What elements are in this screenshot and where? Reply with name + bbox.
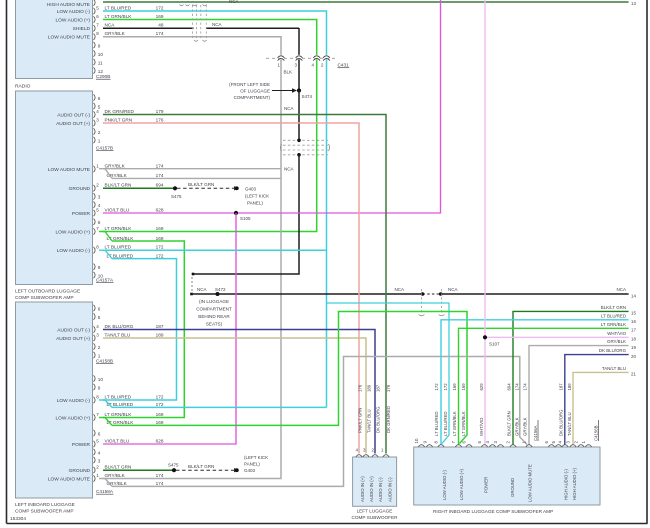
svg-text:179: 179 [386,384,391,392]
C4157A pin 2 GROUND BLK/LT GRN 694 [94,185,96,191]
connector C431 arcs on LT GRN/BLK wire [315,55,318,60]
svg-text:POWER: POWER [72,442,91,448]
svg-text:15: 15 [631,311,636,316]
right amp C4156A pin brackets [418,445,424,447]
junction dot at connector exit on NCA wire [297,153,301,157]
svg-text:179: 179 [156,109,164,114]
svg-text:OF LUGGAGE: OF LUGGAGE [240,89,270,94]
svg-text:GRY/BLK: GRY/BLK [607,339,626,344]
svg-text:RADIO: RADIO [15,84,31,90]
svg-text:TAN/LT BLU: TAN/LT BLU [567,412,572,436]
wire GRY/BLK 174: radio pin 8 right then down at x=281 to C4158A pin 1 [103,37,281,479]
left inboard luggage comp subwoofer amp box (C4158B/C4158A) [16,302,93,498]
svg-text:LT BLU/RED: LT BLU/RED [443,412,448,436]
C4157B pin 4 AUDIO OUT (-) DK GRN/RED 179 [94,111,96,117]
svg-text:C4156B: C4156B [594,425,599,441]
svg-text:10: 10 [414,438,419,443]
svg-text:LT BLU/RED: LT BLU/RED [105,5,132,10]
arrow pointing to splice S474 [272,90,292,92]
svg-text:169: 169 [156,14,164,19]
svg-text:COMP SUBWOOFER AMP: COMP SUBWOOFER AMP [15,509,74,515]
svg-text:628: 628 [156,207,164,212]
svg-text:169: 169 [461,383,466,391]
wire NCA: connector down then left to shield termination [193,155,299,274]
wire LT BLU/RED 172: radio pin 5 right then down at x=326.5 [103,11,327,407]
connector C431 dashed body [266,57,338,59]
shield termination square [192,273,195,276]
svg-text:COMP SUBWOOFER AMP: COMP SUBWOOFER AMP [15,295,74,301]
svg-text:BLK/LT GRN: BLK/LT GRN [188,464,214,469]
svg-text:C290B: C290B [96,74,110,79]
svg-text:BLK: BLK [284,70,293,75]
svg-text:5: 5 [98,315,101,320]
svg-text:169: 169 [156,226,164,231]
svg-text:176: 176 [156,117,164,122]
svg-text:13: 13 [631,1,636,6]
svg-text:19: 19 [631,345,636,350]
radio C290B pin 9 (empty) [94,42,96,48]
svg-text:NCA: NCA [394,287,404,292]
svg-text:BLK/LT GRN: BLK/LT GRN [105,464,132,469]
wire WHT/VIO 629: from top at x=485 through splice S107 to right edge pin 18 and down to right amp pin 5 [484,0,486,445]
svg-text:C431: C431 [338,63,350,68]
svg-text:BLK/LT GRN: BLK/LT GRN [601,305,626,310]
svg-text:694: 694 [507,383,512,391]
splice S475 dot (lower) [172,468,176,472]
svg-text:172: 172 [156,394,164,399]
svg-text:172: 172 [156,245,164,250]
svg-text:LOW AUDIO (+): LOW AUDIO (+) [459,469,464,500]
svg-text:POWER: POWER [72,211,91,217]
svg-text:LT GRN/BLK: LT GRN/BLK [461,411,466,436]
svg-text:AUDIO IN (+): AUDIO IN (+) [369,476,374,502]
svg-text:VIO/LT BLU: VIO/LT BLU [105,207,130,212]
svg-text:GRY/BLK: GRY/BLK [105,163,126,168]
wire DK BLU/ORG 187: right edge pin 20 left then down to right amp C4156B pin 4 [565,355,629,445]
svg-text:NCA: NCA [284,106,294,111]
wire BLK/LT GRN 694: right edge pin 15 left then down to right amp pin 2 [513,311,629,444]
radio C290B pin 12 (empty) [94,67,96,73]
wire GRY/BLK 174: right edge pin 19 left then down to right amp pin 1 [529,346,629,445]
svg-text:18: 18 [631,337,636,342]
svg-text:G403: G403 [244,468,256,473]
svg-text:187: 187 [559,383,564,391]
C4157A pin 6 (empty) [94,219,96,225]
inline connector dots on NCA wire near right [421,292,425,296]
svg-text:LT BLU/RED: LT BLU/RED [105,394,132,399]
svg-text:LOW AUDIO (-): LOW AUDIO (-) [57,9,91,15]
wire LT GRN/BLK 169 jog: C4157A pin 7 down to x=184.3 then to C4158A pin 7 [99,232,112,242]
NCA wire termination square at S472 row [190,293,193,296]
svg-text:2: 2 [98,130,101,135]
svg-text:9: 9 [98,385,101,390]
svg-text:NCA: NCA [616,287,626,292]
svg-text:(LEFT KICK: (LEFT KICK [244,455,268,460]
wire LT BLU/RED 172 branch: vertical tee right to right amp pin 8 [327,303,450,444]
svg-text:LEFT OUTBOARD LUGGAGE: LEFT OUTBOARD LUGGAGE [15,289,80,295]
svg-text:2: 2 [98,345,101,350]
wire LT BLU/RED 172 jog: C4158A pin 8 second wire up into cyan vertical [99,400,112,407]
svg-text:RIGHT INBOARD LUGGAGE COMP SUB: RIGHT INBOARD LUGGAGE COMP SUBWOOFER AMP [433,509,553,514]
svg-text:AUDIO OUT (+): AUDIO OUT (+) [56,121,90,127]
C4158A pin 1 LOW AUDIO MUTE GRY/BLK 174 [94,475,96,481]
C4158B pin 3 AUDIO OUT (+) TAN/LT BLU 189 [94,335,96,341]
svg-text:LOW AUDIO MUTE: LOW AUDIO MUTE [48,476,90,482]
svg-text:LOW AUDIO (-): LOW AUDIO (-) [57,248,91,254]
svg-text:PANEL): PANEL) [244,462,260,467]
svg-text:172: 172 [443,383,448,391]
wire NCA: S472 row to right edge pin 14 [192,293,423,295]
svg-text:PANEL): PANEL) [247,201,263,206]
svg-text:C4156A: C4156A [533,425,538,441]
svg-text:COMP SUBWOOFER: COMP SUBWOOFER [351,515,398,520]
svg-text:AUDIO OUT (+): AUDIO OUT (+) [56,336,90,342]
C4157A pin 5 POWER VIO/LT BLU 628 [94,210,96,216]
svg-text:LEFT INBOARD LUGGAGE: LEFT INBOARD LUGGAGE [15,502,75,508]
C4157A pin 1 LOW AUDIO MUTE GRY/BLK 174 [94,166,96,172]
inline connector dashed body crossing NCA and LT BLU/RED rows [421,289,423,314]
radio C290B pin 8 LOW AUDIO MUTE GRY/BLK 174 [94,34,96,40]
svg-text:6: 6 [98,96,101,101]
svg-text:LT GRN/BLK: LT GRN/BLK [105,226,133,231]
C4157A pin 8 LOW AUDIO (-) LT BLU/RED 172 [94,247,96,253]
svg-text:S474: S474 [302,94,313,99]
svg-text:C4158A: C4158A [96,489,114,494]
svg-text:LOW AUDIO MUTE: LOW AUDIO MUTE [48,35,90,41]
svg-text:NCA: NCA [212,22,222,27]
C4158B pin 1 (empty) [94,352,96,358]
svg-text:NCA: NCA [284,167,294,172]
junction dot at connector entry on NCA wire [297,139,301,143]
wire VIO/LT BLU 628 power: C4157A pin 5 to splice S105 and up at x=440.5 [103,0,441,213]
svg-text:9: 9 [98,265,101,270]
svg-text:694: 694 [156,183,164,188]
C4158B pin 6 (empty) [94,305,96,311]
splice S475 dot [173,186,177,190]
svg-text:21: 21 [631,372,636,377]
wire TAN/LT BLU 189: C4158B pin 3 right then down to subwoofer pin 3 [103,338,366,454]
svg-text:WHT/VIO: WHT/VIO [607,331,626,336]
svg-text:176: 176 [358,384,363,392]
svg-text:S475: S475 [168,462,179,467]
svg-text:LT GRN/BLK: LT GRN/BLK [452,411,457,436]
svg-text:TAN/LT BLU: TAN/LT BLU [105,332,131,337]
svg-text:189: 189 [367,384,372,392]
svg-text:GRY/BLK: GRY/BLK [105,31,126,36]
radio C290B pin 4 HIGH AUDIO MUTE row (top, partially cut off) [94,0,96,6]
svg-text:DK BLU/ORG: DK BLU/ORG [599,348,627,353]
wire LT GRN/BLK 169 jog: C4158A pin 7 second wire right and up [99,418,112,426]
C4158A pin 2 GROUND BLK/LT GRN [94,467,96,473]
C4157B pin 2 (empty) [94,128,96,134]
svg-text:3: 3 [98,195,101,200]
svg-text:16: 16 [631,319,636,324]
wire VIO/LT BLU 628: S105 down then left to C4158A pin 5 [103,213,236,444]
svg-text:153304: 153304 [10,516,26,522]
svg-text:C4157B: C4157B [96,146,113,151]
svg-text:C4158B: C4158B [96,359,113,364]
svg-text:(LEFT KICK: (LEFT KICK [245,194,269,199]
inline connector end arcs (top and bottom) [180,5,184,6]
C4158B pin 2 (empty) [94,343,96,349]
svg-text:172: 172 [156,402,164,407]
inline connector (dashed) on radio harness at x=192-206 [192,5,194,40]
svg-text:COMPARTMENT): COMPARTMENT) [234,95,271,100]
svg-text:6: 6 [98,220,101,225]
C4158A pin 8 LOW AUDIO (-) LT BLU/RED 172 [94,397,96,403]
ground G403 arrow [234,186,239,190]
svg-text:WHT/VIO: WHT/VIO [479,417,484,436]
wire NCA 48 shield: radio pin 7 right (gap at inline connector) then down at x=299 [103,27,194,29]
svg-text:4: 4 [98,450,101,455]
svg-text:TAN/LT BLU: TAN/LT BLU [367,409,372,433]
connector C431 arcs on NCA wire [298,55,301,60]
wire LT BLU/RED 172: right edge pin 16 left then down to right amp pin 8 [441,320,629,445]
svg-text:LOW AUDIO (-): LOW AUDIO (-) [57,398,91,404]
svg-text:174: 174 [523,383,528,391]
svg-text:AUDIO OUT (-): AUDIO OUT (-) [57,327,90,333]
svg-text:BLK/LT GRN: BLK/LT GRN [105,183,132,188]
svg-text:GROUND: GROUND [69,468,91,474]
left luggage comp subwoofer box [353,457,397,506]
svg-text:169: 169 [156,236,164,241]
svg-text:POWER: POWER [484,477,489,493]
svg-text:6: 6 [98,306,101,311]
svg-text:174: 174 [515,383,520,391]
svg-text:174: 174 [156,163,164,168]
left luggage subwoofer pins 4,3,2,1 [356,455,362,457]
svg-text:174: 174 [156,481,164,486]
C4157A pin 3 (empty) [94,193,96,199]
ground lead dashed BLK/LT GRN to G403 (lower) [176,469,234,471]
svg-text:HIGH AUDIO MUTE: HIGH AUDIO MUTE [47,2,90,8]
wire DK BLU/ORG 187: C4158B pin 4 right then down to subwoofer pin 2 [103,330,375,454]
svg-text:BLK/LT GRN: BLK/LT GRN [188,182,214,187]
dashed shield link down to S472 row [191,277,193,291]
svg-text:169: 169 [156,420,164,425]
svg-text:DK BLU/ORG: DK BLU/ORG [105,324,134,329]
svg-text:GRY/BLK: GRY/BLK [523,417,528,436]
svg-text:DK BLU/ORG: DK BLU/ORG [559,409,564,436]
svg-text:LT GRN/BLK: LT GRN/BLK [601,322,626,327]
svg-text:NCA: NCA [197,287,207,292]
left outboard luggage comp subwoofer amp box (C4157B/C4157A) [16,91,93,285]
svg-text:LOW AUDIO MUTE: LOW AUDIO MUTE [528,464,533,502]
radio C290B pin 10 (empty) [94,50,96,56]
wire LT BLU/RED 172: radio branch left into C4157A pin 8 [103,249,327,251]
connector C431 arcs on GRY/BLK wire [280,55,283,60]
inline connector (dashed box) in luggage compartment area [283,139,328,141]
svg-text:174: 174 [156,31,164,36]
C4158A pin 5 POWER VIO/LT BLU 628 [94,441,96,447]
C4157B pin 5 (empty) [94,103,96,109]
svg-text:10: 10 [98,377,104,382]
svg-text:DK GRN/RED: DK GRN/RED [386,406,391,433]
svg-text:LOW AUDIO (+): LOW AUDIO (+) [55,17,90,23]
C4157A pin 10 (empty) [94,272,96,278]
svg-text:LOW AUDIO (+): LOW AUDIO (+) [55,415,90,421]
C4157B pin 3 AUDIO OUT (+) PNK/LT GRN 176 [94,120,96,126]
svg-text:NCA: NCA [105,23,116,28]
radio C290B pin 6 LOW AUDIO (+) LT GRN/BLK 169 [94,16,96,22]
C4157B pin 6 (empty) [94,94,96,100]
C4158B pin 4 AUDIO OUT (-) DK BLU/ORG 187 [94,326,96,332]
svg-text:169: 169 [452,383,457,391]
svg-text:9: 9 [98,43,101,48]
wire NCA: S474 down to luggage inline connector [298,91,300,141]
svg-text:20: 20 [631,354,636,359]
svg-text:BLK/LT GRN: BLK/LT GRN [507,411,512,436]
svg-text:187: 187 [156,324,164,329]
svg-text:AUDIO IN (+): AUDIO IN (+) [360,476,365,502]
C4157A pin 9 (empty) [94,264,96,270]
svg-text:628: 628 [156,438,164,443]
svg-text:AUDIO IN (-): AUDIO IN (-) [378,477,383,502]
svg-text:GROUND: GROUND [69,186,91,192]
svg-text:S472: S472 [215,287,226,292]
svg-text:TAN/LT BLU: TAN/LT BLU [602,366,626,371]
wire DK GRN/ORG 200 high audio mute: radio pin 4 to right edge pin 13 [103,1,629,3]
svg-text:S107: S107 [489,342,500,347]
svg-text:LT GRN/BLK: LT GRN/BLK [105,412,133,417]
svg-text:GRY/BLK: GRY/BLK [515,417,520,436]
svg-text:(IN LUGGAGE: (IN LUGGAGE [199,299,229,304]
wire LT BLU/RED 172 jog: C4157A pin 8 down to x=176.5 then to C4158A pin 8 [99,250,112,258]
radio C290B pin 5 LOW AUDIO (-) LT BLU/RED 172 [94,8,96,14]
svg-text:COMPARTMENT: COMPARTMENT [196,307,232,312]
radio box (connector C290B) [16,0,93,79]
svg-text:BEHIND REAR: BEHIND REAR [198,314,230,319]
svg-text:LOW AUDIO (+): LOW AUDIO (+) [55,229,90,235]
splice S474 dot [297,88,301,92]
C4158A pin 4 (empty) [94,449,96,455]
C4157A pin 4 (empty) [94,202,96,208]
right inboard luggage comp subwoofer amp box (C4156A/C4156B) [414,447,600,505]
svg-text:NCA: NCA [229,0,239,4]
wire DK GRN/RED 179: C4157B pin 4 right then down to subwoofer pin 1 [103,115,386,454]
svg-text:LOW AUDIO (-): LOW AUDIO (-) [442,470,447,500]
C4158A pin 7 LOW AUDIO (+) LT GRN/BLK 169 [94,414,96,420]
svg-text:189: 189 [156,332,164,337]
splice S472 dot [216,292,220,296]
svg-text:11: 11 [98,60,103,65]
radio C290B pin 11 (empty) [94,59,96,65]
right amp C4156B pin brackets [548,445,554,447]
wire TAN/LT BLU 189: right edge pin 21 left then down to right amp C4156B pin 3 [573,372,629,444]
splice S107 dot [483,335,487,339]
svg-text:LT BLU/RED: LT BLU/RED [434,412,439,436]
wire GRY/BLK 174 jog: C4158A pin 1 second wire right, up at x=343.5, over and down to right amp pin 1 [99,479,112,487]
svg-text:17: 17 [631,328,636,333]
wire LT GRN/BLK 169: right edge pin 17 left then down to right amp pin 7 [459,328,629,444]
svg-text:HIGH AUDIO (+): HIGH AUDIO (+) [572,468,577,500]
svg-text:SEATS): SEATS) [206,322,223,327]
radio C290B pin 7 SHIELD NCA 48 [94,25,96,31]
wire LT GRN/BLK 169: radio pin 6 right then down at x=316.7 to C4157A pin 7 row [103,20,317,232]
svg-text:172: 172 [156,5,164,10]
connector C431 arcs on LT BLU/RED wire [325,55,328,60]
svg-text:G403: G403 [245,186,257,191]
C4158A pin 9 (empty) [94,384,96,390]
page border left [6,0,8,524]
svg-text:187: 187 [376,384,381,392]
svg-text:DK BLU/ORG: DK BLU/ORG [376,406,381,433]
svg-text:LT GRN/BLK: LT GRN/BLK [105,14,133,19]
svg-text:172: 172 [434,383,439,391]
svg-text:174: 174 [156,473,164,478]
svg-text:PNK/LT GRN: PNK/LT GRN [358,408,363,433]
svg-text:GRY/BLK: GRY/BLK [105,473,126,478]
svg-text:LT BLU/RED: LT BLU/RED [105,245,132,250]
svg-text:AUDIO IN (-): AUDIO IN (-) [388,477,393,502]
svg-text:6: 6 [98,431,101,436]
page border right [646,0,648,524]
svg-text:S105: S105 [240,216,251,221]
page border bottom [7,523,648,525]
svg-text:172: 172 [156,253,164,258]
svg-text:189: 189 [567,383,572,391]
svg-text:HIGH AUDIO (-): HIGH AUDIO (-) [564,469,569,500]
C4158A pin 3 (empty) [94,457,96,463]
svg-text:DK GRN/RED: DK GRN/RED [105,109,135,114]
svg-text:1: 1 [98,138,101,143]
svg-text:AUDIO OUT (-): AUDIO OUT (-) [57,112,90,118]
svg-text:PNK/LT GRN: PNK/LT GRN [105,117,133,122]
wire BLK/LT GRN 694 ground: C4157A pin 2 to splice S475 [103,187,175,189]
svg-text:48: 48 [158,23,164,28]
C4158A pin 6 (empty) [94,430,96,436]
wire GRY/BLK 174 jog: C4157A pin 1 to vertical at x=281 [99,169,112,179]
svg-text:LEFT LUGGAGE: LEFT LUGGAGE [357,508,393,513]
svg-text:LT BLU/RED: LT BLU/RED [601,313,626,318]
C4157B pin 1 (empty) [94,137,96,143]
svg-text:GROUND: GROUND [510,478,515,497]
ground G403 arrow (lower) [234,468,239,472]
svg-text:C4157A: C4157A [96,278,114,283]
C4158B pin 5 (empty) [94,313,96,319]
svg-text:NCA: NCA [448,287,458,292]
splice S105 dot [234,211,238,215]
svg-text:(FRONT LEFT SIDE: (FRONT LEFT SIDE [229,82,270,87]
svg-text:LOW AUDIO MUTE: LOW AUDIO MUTE [48,167,90,173]
ground lead dashed BLK/LT GRN to G403 [177,187,234,189]
svg-text:169: 169 [156,412,164,417]
svg-text:3: 3 [98,458,101,463]
svg-text:14: 14 [631,294,636,299]
svg-text:629: 629 [479,383,484,391]
C4157A pin 7 LOW AUDIO (+) LT GRN/BLK 169 [94,228,96,234]
svg-text:S475: S475 [171,194,182,199]
svg-text:174: 174 [156,173,164,178]
svg-text:SHIELD: SHIELD [73,26,91,32]
wire PNK/LT GRN 176: C4157B pin 3 right then down to subwoofer pin 4 [103,123,359,454]
wire BLK/LT GRN ground: C4158A pin 2 to splice S475 [103,469,174,471]
svg-text:10: 10 [98,52,104,57]
C4158A pin 10 (empty) [94,375,96,381]
svg-text:VIO/LT BLU: VIO/LT BLU [105,438,130,443]
